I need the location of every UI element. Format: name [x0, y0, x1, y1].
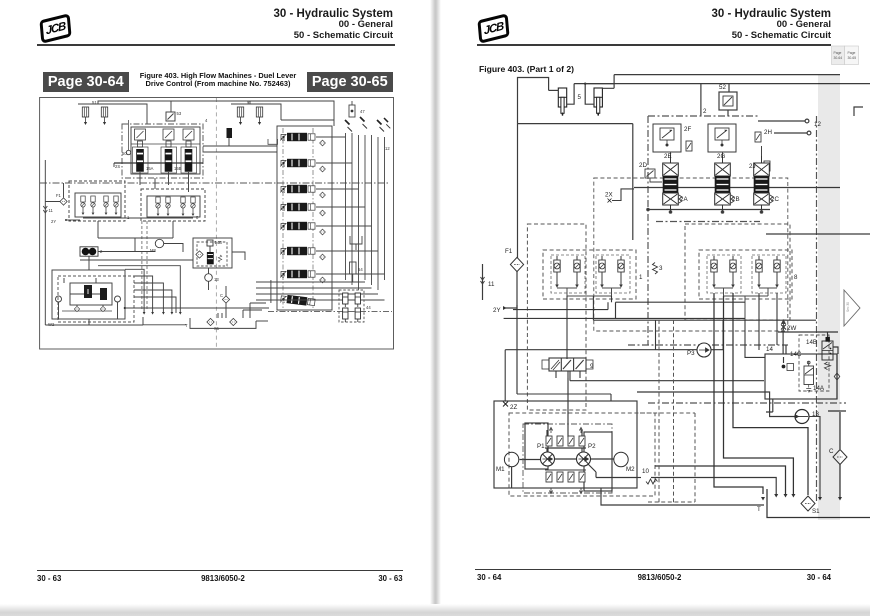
- svg-text:14B: 14B: [215, 240, 223, 245]
- svg-text:3: 3: [659, 265, 663, 272]
- svg-text:15A: 15A: [146, 166, 154, 171]
- svg-text:A2: A2: [280, 226, 286, 231]
- svg-text:8: 8: [794, 274, 798, 281]
- svg-text:A3: A3: [280, 207, 286, 212]
- svg-text:14B: 14B: [806, 339, 817, 346]
- svg-text:W2: W2: [48, 322, 55, 327]
- svg-text:2Y: 2Y: [493, 307, 501, 314]
- svg-text:15B: 15B: [174, 166, 182, 171]
- svg-text:1: 1: [127, 215, 130, 220]
- svg-text:2D: 2D: [639, 162, 647, 169]
- svg-text:2S: 2S: [115, 164, 120, 169]
- svg-text:50: 50: [122, 151, 127, 156]
- svg-text:12: 12: [385, 146, 390, 151]
- svg-text:14: 14: [766, 346, 773, 353]
- svg-text:A6: A6: [280, 137, 286, 142]
- svg-text:2X: 2X: [605, 192, 613, 199]
- svg-text:T: T: [185, 323, 188, 328]
- svg-text:A1: A1: [280, 299, 286, 304]
- svg-text:9: 9: [590, 363, 594, 370]
- svg-text:S1: S1: [214, 326, 220, 331]
- svg-text:2A: 2A: [680, 196, 688, 203]
- svg-text:F1: F1: [56, 193, 62, 198]
- svg-text:30-64: 30-64: [834, 56, 843, 60]
- svg-text:2E: 2E: [664, 153, 672, 160]
- svg-text:53: 53: [177, 111, 182, 116]
- svg-text:10: 10: [642, 468, 649, 475]
- svg-text:A4: A4: [280, 189, 286, 194]
- svg-text:Page: Page: [848, 51, 856, 55]
- svg-text:2Z: 2Z: [510, 404, 517, 411]
- svg-text:2Y: 2Y: [51, 219, 56, 224]
- svg-text:T: T: [757, 506, 761, 513]
- svg-text:2B: 2B: [732, 196, 740, 203]
- svg-text:M1: M1: [496, 466, 505, 473]
- svg-text:1: 1: [639, 274, 643, 281]
- svg-text:2C: 2C: [771, 196, 779, 203]
- svg-text:Page: Page: [834, 51, 842, 55]
- svg-text:M2: M2: [626, 466, 635, 473]
- svg-text:F1: F1: [505, 248, 513, 255]
- svg-text:14C: 14C: [790, 351, 802, 358]
- svg-text:54: 54: [358, 267, 363, 272]
- svg-text:A8: A8: [280, 251, 286, 256]
- svg-text:47: 47: [360, 109, 365, 114]
- svg-text:13: 13: [214, 277, 219, 282]
- svg-text:A5: A5: [280, 163, 286, 168]
- svg-text:P2: P2: [588, 443, 596, 450]
- svg-text:C: C: [220, 293, 223, 298]
- svg-text:2F: 2F: [684, 126, 691, 133]
- svg-text:Sec 30: Sec 30: [846, 302, 850, 312]
- svg-text:52: 52: [719, 84, 726, 91]
- svg-text:2W: 2W: [787, 325, 796, 332]
- svg-text:51: 51: [247, 100, 252, 105]
- svg-text:5: 5: [578, 94, 582, 101]
- svg-text:2G: 2G: [717, 153, 725, 160]
- svg-text:P1: P1: [537, 443, 545, 450]
- svg-text:2H: 2H: [764, 129, 772, 136]
- svg-text:11: 11: [49, 208, 54, 213]
- svg-text:11: 11: [488, 281, 495, 288]
- svg-text:2J: 2J: [749, 163, 756, 170]
- svg-text:M8: M8: [150, 248, 156, 253]
- svg-text:A7: A7: [280, 274, 286, 279]
- svg-text:51: 51: [92, 100, 97, 105]
- svg-text:4: 4: [205, 118, 208, 123]
- svg-text:30-65: 30-65: [848, 56, 857, 60]
- svg-text:2: 2: [703, 108, 707, 115]
- svg-text:8: 8: [196, 215, 199, 220]
- svg-text:44: 44: [366, 305, 371, 310]
- svg-text:P3: P3: [687, 350, 695, 357]
